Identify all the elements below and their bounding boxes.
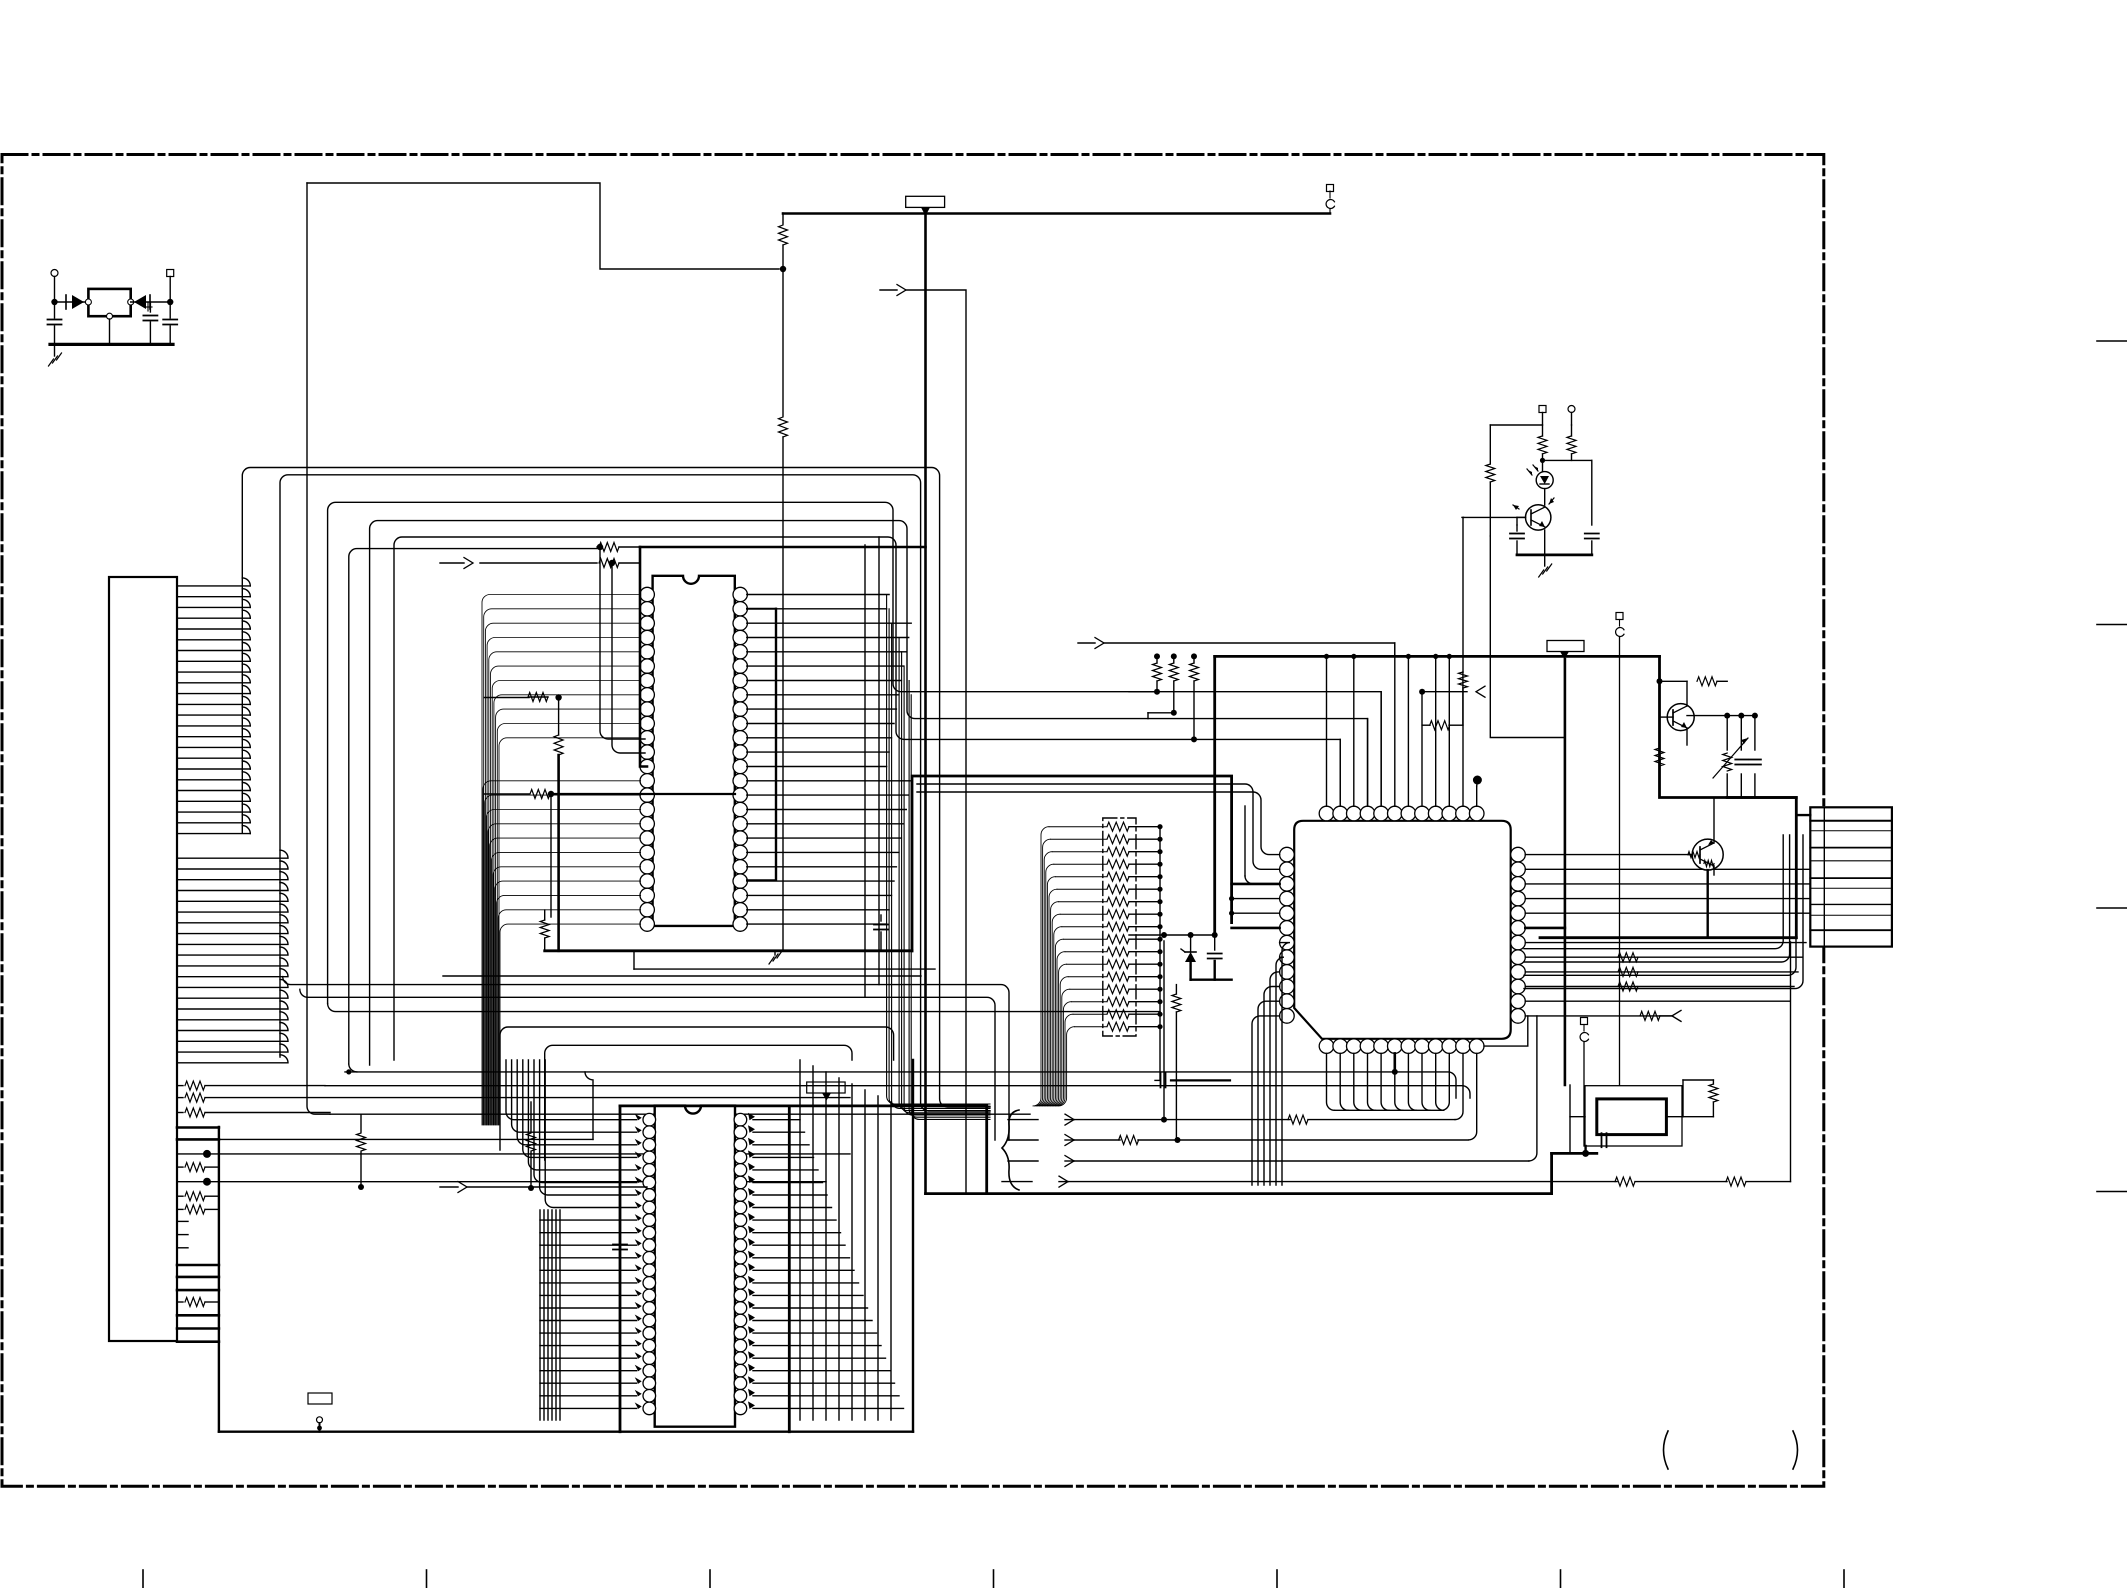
wire bold (IC201 frame left) (640, 547, 926, 767)
IC201 left pin wires (482, 595, 641, 1126)
wire bus 9 (864, 545, 866, 997)
IC301 body (DIP) (655, 1106, 735, 1427)
wire bus 7 (346, 549, 597, 1075)
wire sensor emitter down (1490, 536, 1565, 738)
wire wrap 2 (545, 1045, 852, 1160)
wire (612, 563, 645, 753)
wire bold bottom bus (926, 1153, 1552, 1193)
resistor R405b (1655, 748, 1664, 766)
resistor array RA301 (1033, 822, 1163, 1106)
connector CN402 (1810, 807, 1892, 946)
input arrows IN404-IN407 (1002, 1114, 1074, 1187)
stamp parentheses (1664, 1431, 1798, 1469)
resistor R409 and arrow (1640, 1010, 1681, 1021)
wire sensor base run (1462, 516, 1526, 518)
wire bus 10 (443, 951, 935, 976)
terminal J103 (317, 1417, 323, 1432)
wire bus B (connector to loop bus 2) (177, 850, 288, 1063)
IC301 right pin wires (753, 1120, 904, 1409)
IC301 pins (635, 1113, 755, 1415)
dash-dot box (array) (1103, 818, 1136, 1036)
wire loop bus 1 (242, 468, 990, 1108)
input arrow IN103 (440, 1102, 647, 1193)
border frame (dash-dot) (2, 155, 1824, 1487)
sub-board outline (219, 1060, 913, 1432)
wire (906, 290, 966, 1194)
wire bold main vertical (924, 214, 927, 1194)
wire bold FL401 rail (1564, 659, 1567, 1085)
wire bold corner (985, 1106, 988, 1194)
sensor caps and ground (1486, 425, 1599, 577)
diode D101 (66, 295, 84, 309)
LED D401 (1527, 465, 1553, 489)
phototransistor Q401 (1513, 489, 1554, 531)
sensor terminals (1539, 406, 1575, 437)
wire (109, 319, 111, 344)
wire loop bus 2 (280, 475, 990, 1111)
wire bold IC301 left rail (613, 1106, 987, 1432)
transistor Q403 (1688, 798, 1723, 938)
resistors R103-R105 (177, 1081, 850, 1117)
IC201 right pin wires (747, 595, 911, 925)
wire bold IC301 right rail (788, 1106, 791, 1432)
IC201 pins (640, 587, 747, 931)
wire bold crystal join (1552, 1146, 1597, 1157)
wire loop bus 5 (370, 521, 1368, 1065)
wire bus 3 (VCC feed) (307, 183, 330, 1114)
connector CN101 lower pin wires (177, 1128, 219, 1342)
wire bus (connector risers) (1524, 835, 1803, 989)
IC301 left pin wires (506, 1060, 637, 1408)
zener D301 and capacitor C302 (1129, 932, 1232, 1140)
regulator IC101 body (85, 289, 133, 319)
label box FL102 (308, 1393, 332, 1404)
connector CN101 (board edge) (109, 577, 177, 1341)
wire bold (right of IC201) (747, 609, 776, 880)
resistor R404 (1422, 672, 1463, 730)
input arrow IN401 (1078, 638, 1395, 657)
wire bold QFP left rail (1213, 656, 1216, 935)
capacitor C104 (874, 915, 888, 951)
resistors R406-R408 (1618, 953, 1638, 991)
connector CN402 bold stub (1796, 814, 1810, 816)
wire loop bus 4 (328, 502, 1382, 1011)
diode D102 (134, 295, 150, 309)
label box FL103 (807, 1082, 845, 1101)
IC401 right pin wires (1525, 855, 1810, 1016)
capacitor C301 (1155, 1073, 1230, 1087)
wire band (right of IC201) (887, 595, 990, 1120)
IC401 bottom pin wires (1327, 1016, 1528, 1140)
IC401 pins (1280, 806, 1526, 1053)
transistor Q402 (1657, 677, 1728, 745)
label box FL101 (906, 196, 945, 216)
capacitor C101 (48, 302, 62, 344)
wire long mid lines (283, 977, 1009, 1140)
brace (input group) (1002, 1110, 1019, 1190)
capacitor C102 (electrolytic) (143, 302, 157, 344)
node junction (780, 266, 786, 272)
terminal J102 (output) (167, 270, 174, 303)
wire bold right rail (1660, 656, 1797, 937)
resistor R111 (357, 1114, 366, 1190)
ground (769, 951, 782, 964)
IC401 top pin wires (1324, 517, 1482, 806)
right alignment ticks (2097, 341, 2127, 1192)
wire bold VCC rail (783, 212, 1330, 215)
capacitor C103 (163, 302, 177, 344)
wire wrap 1 (500, 1027, 894, 1150)
wire (55, 301, 89, 303)
bottom alignment ticks (143, 1570, 1844, 1588)
wire bold riser to QFP (912, 776, 1232, 951)
label box FL401 (1547, 641, 1584, 660)
terminal J101 (input) (51, 270, 58, 306)
wire bus (right of IC301) (800, 1060, 891, 1420)
IC401 left pin wires (bold) (1232, 884, 1280, 928)
IC401 left pin wires (upper) (917, 784, 1280, 884)
terminal TP403 (1580, 1018, 1588, 1147)
wire loop bus 6 (394, 537, 1340, 1060)
resistors R108-R110 bold rail (484, 693, 735, 951)
wire bus (lower long runs) (219, 1072, 1470, 1182)
resistor R102 (779, 269, 788, 951)
wire bold ground bus (upper) (545, 949, 912, 952)
crystal X401 circuit (1570, 1080, 1718, 1153)
wire (131, 299, 174, 305)
resistors R106,R107 and input IN102 (440, 543, 640, 569)
terminal TP101 (1326, 185, 1334, 214)
IC401 left pin wires (lower) (1252, 943, 1290, 1185)
wire bus (left of IC301) (540, 1210, 560, 1420)
wire bold bus 937 (1540, 936, 1796, 939)
ground (49, 344, 62, 366)
wire bus 8 (878, 537, 880, 985)
trim network (1687, 713, 1796, 798)
wire VCC branch (307, 183, 779, 269)
input arrow IN402 (left) (1419, 686, 1485, 697)
resistor R101 (779, 213, 788, 269)
IC401 body (QFP) (1294, 821, 1511, 1039)
sensor resistors R404a,R405a (1538, 425, 1592, 472)
IC401 left pin wires (mid) (1229, 896, 1280, 916)
resistors R401-R403 (1129, 653, 1199, 742)
ground bus (50, 343, 173, 346)
IC201 body (DIP) (653, 576, 735, 926)
input arrow IN101 (880, 285, 906, 296)
terminal TP402 (1616, 613, 1624, 1086)
wire bold bus 656 (1215, 655, 1660, 658)
wire (600, 547, 645, 739)
wire brace runs (1068, 942, 1791, 1186)
wire bus A (connector to loop bus 1) (177, 578, 250, 834)
